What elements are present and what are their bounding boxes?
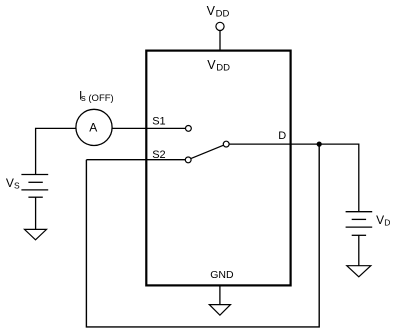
label V_S [6, 176, 20, 191]
wire D pin to junction [229, 143, 319, 145]
label V_D [376, 213, 390, 228]
svg-text:V: V [6, 176, 14, 190]
svg-text:s (OFF): s (OFF) [81, 93, 114, 104]
svg-text:A: A [89, 121, 97, 135]
svg-text:DD: DD [216, 63, 230, 74]
wire GND pin to ground [219, 286, 221, 305]
svg-text:GND: GND [210, 269, 234, 281]
switch blade S2 to D [189, 144, 226, 159]
wire S1 stub inside box [146, 127, 186, 129]
svg-text:V: V [376, 213, 384, 227]
IC box U1 [146, 51, 290, 286]
wire S2 (from feedback loop into box) [86, 159, 185, 161]
svg-text:D: D [278, 130, 286, 142]
svg-text:S1: S1 [152, 116, 165, 128]
svg-text:V: V [207, 58, 216, 72]
wire battery VD to ground [358, 235, 360, 265]
svg-text:S: S [14, 181, 20, 191]
feedback wire D junction to S2 [86, 144, 319, 327]
svg-text:D: D [384, 217, 390, 227]
wire ammeter to battery VS [36, 128, 76, 174]
label V_DD (top supply) [207, 4, 230, 20]
ground (left, below VS) [25, 229, 47, 239]
switch S2 contact [185, 157, 191, 163]
wire junction to battery VD [319, 144, 359, 212]
pin label V_DD (inside box) [207, 58, 230, 74]
battery VD [346, 212, 373, 236]
svg-text:V: V [207, 4, 216, 18]
wire VDD terminal to box [219, 31, 221, 52]
wire ammeter to S1 pin [112, 127, 147, 129]
wire battery VS to ground [35, 197, 37, 229]
node junction (D net) [317, 142, 322, 147]
label I_s(OFF) [79, 88, 114, 104]
ground (center, below box) [209, 305, 230, 316]
switch D contact [223, 141, 229, 147]
ammeter A1 [76, 109, 112, 145]
battery VS [21, 175, 48, 198]
terminal circle VDD [216, 22, 224, 30]
ground (right, below VD) [347, 266, 371, 277]
switch S1 contact [186, 125, 192, 131]
svg-text:DD: DD [216, 8, 230, 19]
